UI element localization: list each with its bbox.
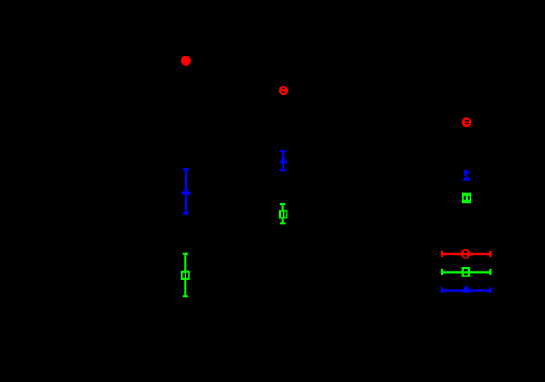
data point: green open square with internal error bar, column 3 bbox=[462, 193, 471, 204]
data point: blue triangle with vertical error bar, column 1 bbox=[181, 168, 192, 215]
data point: red open circle with horizontal error bar, column 3 bbox=[462, 117, 472, 127]
data point: green open square with vertical error bar, column 1 bbox=[181, 253, 190, 298]
legend entry: blue filled triangle with horizontal error bar bbox=[441, 285, 492, 294]
legend entry: green open square with horizontal error bar bbox=[441, 267, 492, 277]
data point: blue triangle with short error bar, column 3 bbox=[462, 170, 471, 181]
data point: red filled circle, column 1 bbox=[181, 56, 191, 66]
data point: red open circle, column 2 bbox=[279, 86, 288, 95]
data point: blue triangle with vertical error bar, column 2 bbox=[279, 150, 288, 171]
legend entry: red open circle with horizontal error bar bbox=[441, 249, 492, 259]
data point: green open square with vertical error bar, column 2 bbox=[279, 203, 288, 224]
